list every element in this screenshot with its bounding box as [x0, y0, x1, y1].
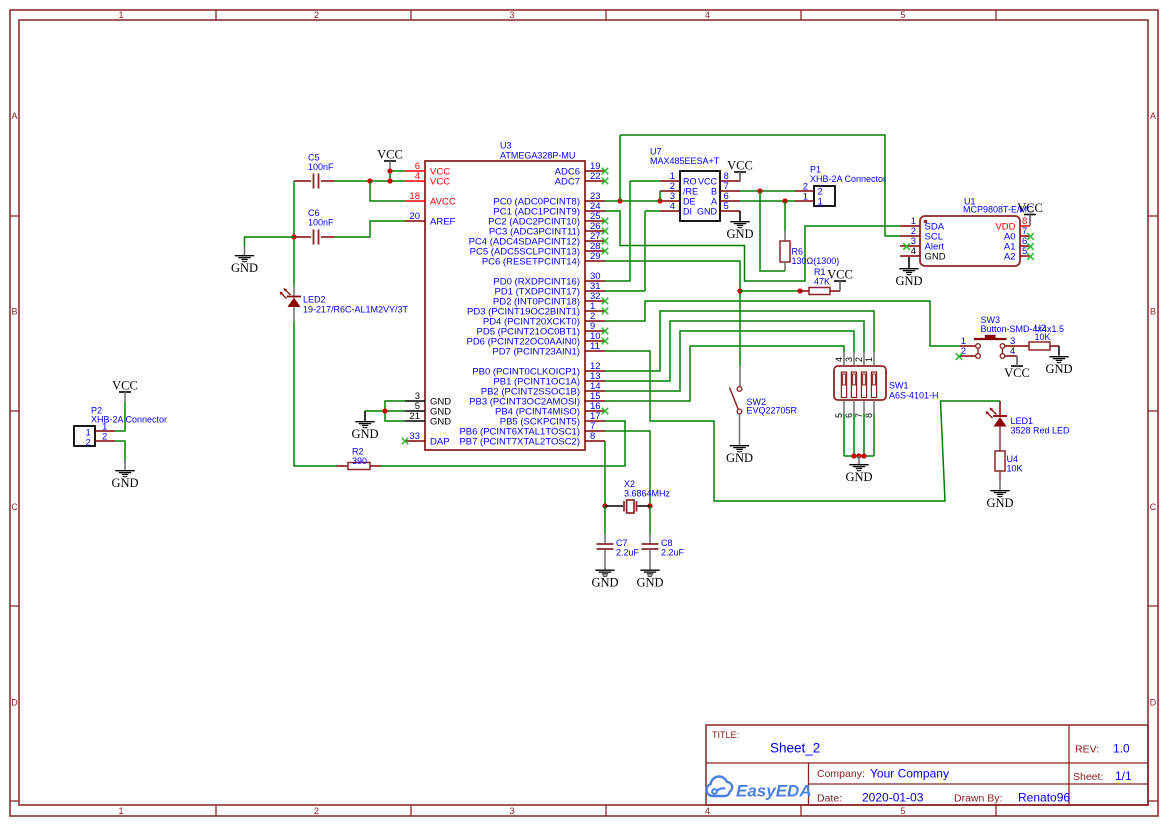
resistor U2 lead left [1016, 345, 1029, 347]
wire SW1 bottom pin x=854 to gnd rail [853, 414, 855, 456]
capacitor C5 lead right [321, 180, 334, 182]
svg-text:B: B [11, 307, 17, 317]
svg-text:REV:: REV: [1075, 744, 1099, 756]
svg-text:DE: DE [683, 196, 696, 206]
wire to U3 pin6 VCC [390, 170, 405, 172]
capacitor C8 2.2uF [642, 544, 659, 549]
wire U7 A to P1 pin1 [740, 200, 795, 202]
svg-text:GND: GND [111, 476, 138, 490]
frame column tick [605, 10, 607, 20]
svg-text:C6: C6 [308, 208, 320, 218]
U1 pin 4 GND (left) [900, 255, 920, 257]
U3 pin 21 GND (left) [405, 420, 425, 422]
frame row tick [10, 800, 19, 802]
VCC flag stem at SW3 pin4 (inverted) [1016, 356, 1018, 366]
U3 pin 6 VCC (left) [405, 170, 425, 172]
ground at C7 [591, 569, 618, 590]
svg-text:D: D [11, 698, 18, 708]
U3 pin 15 PB3 (PCINT3OC2AMOSI) (right) [585, 400, 605, 402]
svg-text:MAX485EESA+T: MAX485EESA+T [650, 156, 720, 166]
ground at U1 pin4 [895, 257, 922, 288]
power flag VCC at U1 VDD [1017, 201, 1043, 225]
wire PB3 to SW1 pin4 [605, 346, 844, 401]
junction [782, 198, 787, 203]
capacitor C6 lead right [321, 236, 334, 238]
resistor U2 10K [1029, 342, 1050, 350]
svg-text:X2: X2 [624, 479, 635, 489]
SW1 element 3 [861, 372, 866, 398]
U1 pin 2 SCL (left) [900, 235, 920, 237]
U3 pin 19 ADC6 (right) [585, 170, 605, 172]
IC U7 body MAX485EESA+T [680, 171, 720, 221]
svg-text:GND: GND [925, 251, 946, 262]
resistor R2 lead right [370, 465, 381, 467]
svg-text:100nF: 100nF [308, 218, 334, 228]
U3 pin 28 PC5 (ADC5SCLPCINT13) (right) [585, 250, 605, 252]
svg-text:PB7 (PCINT7XTAL2TOSC2): PB7 (PCINT7XTAL2TOSC2) [459, 436, 580, 447]
resistor R6 bottom lead [784, 262, 786, 271]
title block outer [706, 725, 1148, 805]
resistor R2 390 [348, 463, 370, 470]
no-connect X [1027, 233, 1034, 240]
no-connect X [602, 338, 609, 345]
wire to U3 pin18 AVCC [370, 181, 405, 201]
wire PB6 XTAL1 to crystal [605, 431, 650, 506]
capacitor C7 top lead [604, 534, 606, 544]
ground at C8 [636, 569, 663, 590]
junction [797, 288, 802, 293]
ground at P2 [111, 461, 138, 490]
LED LED1 3528 Red LED [986, 408, 1008, 427]
svg-text:C5: C5 [308, 153, 320, 163]
SW1 top pin 3 lead [853, 352, 855, 366]
svg-text:RO: RO [683, 176, 697, 186]
svg-text:Button-SMD-4x4x1.5: Button-SMD-4x4x1.5 [981, 324, 1065, 334]
svg-text:P1: P1 [810, 165, 821, 175]
svg-text:U3: U3 [500, 141, 512, 151]
svg-text:A: A [1150, 111, 1156, 121]
svg-text:5: 5 [724, 201, 729, 212]
capacitor C7 2.2uF [597, 544, 614, 549]
no-connect X [602, 248, 609, 255]
svg-text:2.2uF: 2.2uF [661, 548, 685, 558]
svg-text:A6S-4101-H: A6S-4101-H [889, 391, 939, 401]
svg-text:VCC: VCC [430, 176, 450, 187]
wire U7 /RE tie to DE [659, 191, 661, 201]
svg-text:4: 4 [705, 806, 710, 816]
wire U7 RO stub link [630, 180, 660, 182]
svg-text:R6: R6 [792, 247, 804, 257]
svg-text:1: 1 [118, 806, 123, 816]
svg-text:B: B [711, 186, 717, 196]
power flag VCC at P2 [112, 379, 138, 403]
U7 pin 6 A (right) [720, 200, 740, 202]
frame row tick [10, 215, 19, 217]
no-connect X [1027, 253, 1034, 260]
svg-text:B: B [1150, 307, 1156, 317]
SW1 bottom pin 8 lead [873, 400, 875, 414]
svg-text:C: C [1150, 502, 1157, 512]
svg-text:8: 8 [590, 431, 595, 442]
SW3 pin 4 stub [1005, 355, 1017, 357]
P1 pin 1 [795, 200, 814, 202]
svg-text:1: 1 [864, 357, 874, 362]
svg-text:5: 5 [900, 10, 905, 20]
svg-text:LED1: LED1 [1011, 416, 1034, 426]
svg-text:100nF: 100nF [308, 162, 334, 172]
wire PD4 to SW3 pin1 [605, 301, 960, 346]
LED2 top lead [293, 285, 295, 296]
U1 pin 5 A2 (right) [1020, 255, 1030, 257]
U3 pin 3 GND (left) [405, 400, 425, 402]
svg-text:2: 2 [102, 431, 107, 442]
wire RESET to R1 [740, 290, 800, 292]
U1 pin-1 marker dot [924, 220, 928, 224]
U3 pin 23 PC0 (ADC0PCINT8) (right) [585, 200, 605, 202]
svg-text:SW1: SW1 [889, 381, 909, 391]
connector P2 XHB-2A body [74, 426, 95, 446]
svg-text:130Ω(1300): 130Ω(1300) [792, 256, 840, 266]
svg-text:GND: GND [845, 470, 872, 484]
LED D LED2 19-217/R6C-AL1M2VY/3T [280, 288, 302, 307]
svg-text:DI: DI [683, 206, 692, 216]
U3 pin 7 PB6 (PCINT6XTAL1TOSC1) (right) [585, 430, 605, 432]
junction [856, 453, 861, 458]
svg-text:7: 7 [854, 413, 864, 418]
svg-text:10K: 10K [1035, 332, 1051, 342]
svg-text:6: 6 [844, 413, 854, 418]
resistor U2 lead right [1050, 345, 1059, 347]
svg-text:29: 29 [590, 251, 601, 262]
U1 pin 8 VDD (right) [1020, 225, 1030, 227]
svg-text:R2: R2 [352, 447, 364, 457]
SW1 element 1 [841, 372, 846, 398]
U3 pin 11 PD7 (PCINT23AIN1) (right) [585, 350, 605, 352]
svg-text:XHB-2A Connector: XHB-2A Connector [810, 174, 886, 184]
wire TXD to U7 DI vertical [644, 211, 646, 291]
U3 pin 26 PC3 (ADC3PCINT11) (right) [585, 230, 605, 232]
svg-text:1: 1 [118, 10, 123, 20]
no-connect X [602, 408, 609, 415]
svg-text:4: 4 [670, 201, 675, 212]
SW1 top pin 4 lead [843, 352, 845, 366]
op IC U3 body ATMEGA328P-MU [425, 161, 585, 450]
svg-text:11: 11 [590, 341, 600, 352]
no-connect X [1027, 243, 1034, 250]
svg-text:Date:: Date: [817, 793, 842, 805]
svg-text:ATMEGA328P-MU: ATMEGA328P-MU [500, 151, 575, 161]
svg-text:A: A [711, 196, 717, 206]
svg-text:PD7 (PCINT23AIN1): PD7 (PCINT23AIN1) [492, 346, 580, 357]
U7 pin 3 DE (left) [660, 200, 680, 202]
svg-text:C8: C8 [661, 538, 673, 548]
svg-text:4: 4 [1010, 346, 1015, 357]
junction [737, 288, 742, 293]
svg-text:1.0: 1.0 [1113, 742, 1130, 756]
svg-text:EVQ22705R: EVQ22705R [747, 406, 798, 416]
U3 pin 9 PD5 (PCINT21OC0BT1) (right) [585, 330, 605, 332]
svg-text:22: 22 [590, 171, 601, 182]
U3 pin 27 PC4 (ADC4SDAPCINT12) (right) [585, 240, 605, 242]
svg-text:ADC7: ADC7 [555, 176, 580, 187]
svg-text:VCC: VCC [112, 379, 138, 393]
wire R2 to U3 pin17 PB5 SCK [381, 421, 625, 466]
svg-text:GND: GND [1045, 362, 1072, 376]
svg-text:Drawn By:: Drawn By: [954, 793, 1002, 805]
svg-text:18: 18 [409, 191, 420, 202]
resistor R1 47K [809, 288, 830, 295]
junction [367, 178, 372, 183]
wire U7 B to P1 pin2 [740, 190, 795, 192]
svg-text:U4: U4 [1007, 454, 1019, 464]
junction [861, 453, 866, 458]
wire R6 bottom to B net [760, 191, 785, 271]
junction [647, 503, 652, 508]
wire PB0 to SW1 pin1 [605, 311, 874, 371]
wire to GND flag near capacitors [245, 237, 295, 246]
U3 pin 18 AVCC (left) [405, 200, 425, 202]
wire P2 pin2 to GND [115, 441, 125, 461]
title block dividers [706, 762, 1148, 764]
svg-text:GND: GND [591, 575, 618, 589]
frame column tick [215, 10, 217, 20]
connector P1 XHB-2A body [814, 186, 835, 206]
no-connect X [602, 328, 609, 335]
svg-text:Your Company: Your Company [870, 767, 949, 781]
wire into U7 DI [645, 210, 660, 212]
svg-text:AREF: AREF [430, 216, 456, 227]
U3 pin 16 PB4 (PCINT4MISO) (right) [585, 410, 605, 412]
SW3 pin 2 stub [960, 355, 976, 357]
ground at SW2 [726, 444, 753, 465]
svg-text:EasyEDA: EasyEDA [736, 782, 812, 801]
svg-text:VCC: VCC [727, 159, 753, 173]
wire PC6 RESET to SW2/R1 [605, 261, 740, 366]
resistor R6 top lead [784, 231, 786, 241]
U3 pin 17 PB5 (SCKPCINT5) (right) [585, 420, 605, 422]
svg-text:2: 2 [961, 346, 966, 357]
resistor U4 10K [995, 451, 1005, 471]
svg-text:1: 1 [803, 191, 808, 202]
svg-text:GND: GND [351, 427, 378, 441]
U4 bottom lead [999, 471, 1001, 481]
svg-text:2020-01-03: 2020-01-03 [862, 791, 924, 805]
frame row tick [10, 605, 19, 607]
U7 pin 1 RO (left) [660, 180, 680, 182]
capacitor C8 top lead [649, 534, 651, 544]
junction [387, 168, 392, 173]
U3 pin 31 PD1 (TXDPCINT17) (right) [585, 290, 605, 292]
junction [851, 453, 856, 458]
svg-text:4: 4 [911, 246, 916, 257]
SW1 top pin 1 lead [873, 352, 875, 366]
SW3 pin 1 stub [960, 345, 976, 347]
capacitor C5 lead left [294, 180, 311, 182]
svg-text:PC6 (RESETPCINT14): PC6 (RESETPCINT14) [482, 256, 580, 267]
svg-text:VCC: VCC [1004, 366, 1030, 380]
no-connect X [602, 308, 609, 315]
svg-text:C: C [11, 502, 18, 512]
wire PD7 to LED1 [605, 351, 1000, 501]
svg-text:GND: GND [430, 416, 451, 427]
U3 pin 4 VCC (left) [405, 180, 425, 182]
ground at U3 GND pins [351, 411, 378, 441]
no-connect X [602, 228, 609, 235]
svg-text:A: A [11, 111, 17, 121]
svg-text:3: 3 [509, 10, 514, 20]
frame column tick [410, 10, 412, 20]
svg-text:3528 Red LED: 3528 Red LED [1011, 426, 1071, 436]
U3 pin 32 PD2 (INT0PCINT18) (right) [585, 300, 605, 302]
svg-text:VCC: VCC [827, 268, 853, 282]
svg-text:4: 4 [834, 357, 844, 362]
svg-text:3.6864MHz: 3.6864MHz [624, 489, 671, 499]
switch SW2 EVQ22705R symbol [730, 387, 742, 414]
U3 pin 5 GND (left) [405, 410, 425, 412]
power flag VCC at R1 [827, 268, 853, 292]
VCC flag stem at U1 VDD [1029, 215, 1031, 227]
svg-text:VCC: VCC [377, 148, 403, 162]
wire RO to PD0 RXD [605, 181, 630, 281]
U3 pin 24 PC1 (ADC1PCINT9) (right) [585, 210, 605, 212]
U3 pin 20 AREF (left) [405, 220, 425, 222]
switch SW2 top lead [739, 366, 741, 387]
wire PD1 TXD [605, 290, 645, 292]
U1 pin 7 A0 (right) [1020, 235, 1030, 237]
svg-text:Sheet_2: Sheet_2 [770, 741, 820, 756]
P1 pin 2 [795, 190, 814, 192]
wire PB7 XTAL2 to crystal [604, 441, 606, 506]
wire SW1 ground rail [844, 455, 874, 457]
SW3 pin 3 stub [1005, 345, 1016, 347]
SW1 bottom pin 5 lead [843, 400, 845, 414]
switch SW1 A6S-4101-H body [834, 366, 886, 400]
U3 pin 30 PD0 (RXDPCINT16) (right) [585, 280, 605, 282]
svg-text:C7: C7 [616, 538, 628, 548]
no-connect X [402, 438, 409, 445]
wire SCL top rail to U1 SCL [620, 135, 900, 236]
no-connect X [602, 178, 609, 185]
svg-text:GND: GND [231, 261, 258, 275]
ground at U7 pin5 [726, 211, 753, 241]
U3 pin 22 ADC7 (right) [585, 180, 605, 182]
resistor R1 lead right [830, 290, 840, 292]
svg-text:/RE: /RE [683, 186, 698, 196]
svg-text:VCC: VCC [698, 176, 718, 186]
U1 pin 1 SDA (left) [900, 225, 920, 227]
U1 pin 6 A1 (right) [1020, 245, 1030, 247]
svg-text:GND: GND [697, 206, 718, 216]
switch SW3 button symbol [974, 335, 1007, 359]
power flag VCC at U3 [377, 148, 403, 172]
LED1 bottom lead [999, 427, 1001, 452]
U7 pin 4 DI (left) [660, 210, 680, 212]
svg-text:U7: U7 [650, 147, 662, 157]
VCC flag stem at R1 [839, 281, 841, 291]
switch SW2 bottom lead [739, 414, 741, 444]
no-connect X [956, 353, 963, 360]
capacitor C5 100nF [314, 174, 319, 189]
wire C6 to U3 pin20 AREF [334, 221, 405, 237]
crystal X2 symbol [605, 500, 650, 513]
svg-text:GND: GND [986, 496, 1013, 510]
svg-text:DAP: DAP [430, 436, 450, 447]
svg-text:19-217/R6C-AL1M2VY/3T: 19-217/R6C-AL1M2VY/3T [303, 305, 409, 315]
ground at SW1 [845, 456, 872, 484]
svg-text:Sheet:: Sheet: [1073, 771, 1103, 783]
svg-text:Renato96: Renato96 [1018, 791, 1070, 805]
svg-text:R1: R1 [814, 267, 826, 277]
ground at U4 [986, 481, 1013, 510]
wire P2 pin1 to VCC [115, 402, 125, 431]
svg-text:5: 5 [834, 413, 844, 418]
wire SW1 bottom pin x=864 to gnd rail [863, 414, 865, 456]
capacitor C8 bottom lead [649, 549, 651, 569]
svg-text:2: 2 [314, 806, 319, 816]
U3 pin 12 PB0 (PCINT0CLKOICP1) (right) [585, 370, 605, 372]
wire PB1 to SW1 pin2 [605, 321, 864, 381]
EasyEDA logo [706, 777, 811, 801]
resistor R1 lead left [800, 290, 809, 292]
svg-text:GND: GND [726, 227, 753, 241]
wire VCC flag drop [389, 171, 391, 181]
svg-text:2: 2 [854, 357, 864, 362]
wire C5 to U3 pin4 VCC [334, 180, 405, 182]
svg-text:390: 390 [352, 456, 367, 466]
svg-text:TITLE:: TITLE: [712, 730, 739, 740]
U3 pin 2 PD4 (PCINT20XCKT0) (right) [585, 320, 605, 322]
svg-text:2.2uF: 2.2uF [616, 548, 640, 558]
LED2 bottom lead [293, 307, 295, 322]
junction [657, 198, 662, 203]
svg-text:10K: 10K [1007, 464, 1023, 474]
IC U1 body MCP9808T-E/MC [920, 216, 1020, 266]
U2 to ground bend [1058, 346, 1060, 355]
svg-text:GND: GND [636, 575, 663, 589]
U3 pin 14 PB2 (PCINT2SSOC1B) (right) [585, 390, 605, 392]
svg-text:D: D [1150, 698, 1157, 708]
svg-text:GND: GND [895, 274, 922, 288]
no-connect X [903, 243, 910, 250]
svg-text:LED2: LED2 [303, 295, 326, 305]
svg-text:21: 21 [409, 411, 420, 422]
U3 pin 1 PD3 (PCINT19OC2BINT1) (right) [585, 310, 605, 312]
no-connect X [602, 298, 609, 305]
capacitor C6 100nF [314, 230, 319, 245]
svg-text:1: 1 [818, 197, 823, 208]
no-connect X [602, 218, 609, 225]
power flag VCC at U7 [727, 159, 753, 183]
capacitor C7 bottom lead [604, 549, 606, 569]
wire crystal left to C7 [604, 506, 606, 534]
svg-text:GND: GND [726, 451, 753, 465]
U3 pin 13 PB1 (PCINT1OC1A) (right) [585, 380, 605, 382]
U7 pin 2 /RE (left) [660, 190, 680, 192]
capacitor C6 lead left [294, 236, 311, 238]
VCC flag stem at U7 pin8 [739, 172, 741, 181]
wire crystal right to C8 [649, 506, 651, 534]
ground near C5/C6 [231, 246, 258, 275]
svg-text:20: 20 [409, 211, 420, 222]
ground at U2 [1045, 355, 1072, 376]
no-connect X [602, 168, 609, 175]
wire PB2 to SW1 pin3 [605, 331, 854, 391]
U7 pin 8 VCC (right) [720, 180, 740, 182]
U3 pin 33 DAP (left) [405, 440, 425, 442]
junction [602, 503, 607, 508]
svg-text:AVCC: AVCC [430, 196, 456, 207]
wire C5/C6 ground rail vertical [293, 181, 295, 285]
